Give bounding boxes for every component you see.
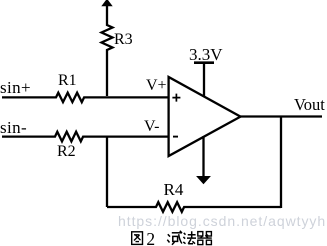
- wire sin+ input to op-amp V+ with resistor R1: [2, 93, 168, 102]
- wire feedback right vertical to output node: [280, 117, 282, 209]
- op-amp U1 triangle: [169, 77, 241, 156]
- svg-text:R1: R1: [58, 72, 77, 89]
- svg-text:3.3V: 3.3V: [189, 45, 223, 64]
- op-amp noninverting input marker +: [172, 94, 180, 102]
- wire feedback left vertical from V- node: [106, 137, 108, 207]
- ground arrow: [197, 177, 210, 184]
- svg-text:V+: V+: [146, 77, 167, 94]
- arrow to positive supply at top of R3: [102, 0, 111, 6]
- op-amp inverting input marker -: [173, 136, 178, 138]
- svg-text:2: 2: [146, 229, 155, 246]
- svg-text:https://blog.csdn.net/aqwtyyh: https://blog.csdn.net/aqwtyyh: [118, 213, 326, 229]
- svg-text:R2: R2: [57, 143, 76, 160]
- svg-text:V-: V-: [144, 118, 159, 135]
- wire op-amp output to Vout: [240, 115, 322, 117]
- wire ground lead from op-amp bottom: [202, 136, 204, 177]
- wire 3.3V supply to op-amp top: [203, 63, 205, 97]
- svg-text:sin-: sin-: [0, 118, 27, 137]
- supply rail bar 3.3V: [194, 61, 214, 64]
- caption glyph 器: [197, 232, 211, 245]
- caption glyph 法: [183, 231, 196, 244]
- svg-text:sin+: sin+: [0, 78, 31, 97]
- svg-text:R3: R3: [114, 31, 133, 48]
- resistor R3 (vertical, pull-up from V+ node): [102, 6, 113, 96]
- caption glyph 减: [167, 231, 182, 245]
- wire sin- input to op-amp V- with resistor R2: [2, 132, 168, 142]
- caption glyph 图: [132, 232, 143, 245]
- wire feedback bottom with resistor R4: [107, 202, 281, 212]
- svg-text:Vout: Vout: [294, 95, 325, 114]
- svg-text:R4: R4: [164, 180, 184, 199]
